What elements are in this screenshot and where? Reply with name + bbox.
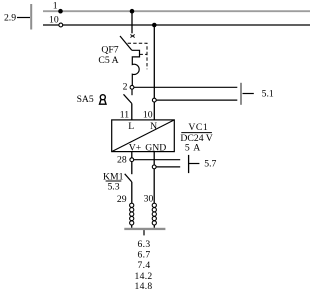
wire N (net 10, black) xyxy=(43,24,310,26)
tap circle on GND drop xyxy=(152,165,156,169)
svg-text:10: 10 xyxy=(49,15,59,26)
svg-text:7.4: 7.4 xyxy=(138,260,151,271)
junction dot on net 1 at x61 xyxy=(58,9,63,14)
wire 28 to sheet 5.7 xyxy=(134,159,181,161)
tag underline xyxy=(181,132,212,134)
switch SA5 xyxy=(131,89,133,95)
svg-text:1: 1 xyxy=(53,0,58,11)
svg-text:VC1: VC1 xyxy=(188,122,208,133)
breaker QF7 switch arm xyxy=(120,36,132,50)
tick below bar xyxy=(143,230,145,235)
svg-text:C5 A: C5 A xyxy=(98,55,118,66)
terminal chain 29 xyxy=(130,203,134,225)
wire stub from 2.9 label xyxy=(17,17,30,19)
stub to 5.1 label xyxy=(243,93,254,95)
contact KM1 arm xyxy=(125,174,132,182)
power supply U1 box xyxy=(112,120,175,152)
svg-text:5.1: 5.1 xyxy=(262,88,274,99)
svg-text:14.2: 14.2 xyxy=(135,271,153,282)
svg-text:30: 30 xyxy=(144,194,154,205)
wire net10 down to power supply N pin xyxy=(152,23,157,28)
lead chain30 to bar xyxy=(153,225,155,228)
contact KM1 top lead xyxy=(131,162,133,175)
svg-text:2.9: 2.9 xyxy=(4,12,16,23)
stub to 5.7 label xyxy=(189,163,200,165)
svg-text:V+: V+ xyxy=(129,142,141,153)
wire from N tap to sheet 5.1 xyxy=(156,99,237,101)
svg-text:28: 28 xyxy=(117,154,127,165)
contact KM1 bottom lead xyxy=(131,182,133,203)
svg-text:2: 2 xyxy=(123,82,128,93)
svg-text:QF7: QF7 xyxy=(101,45,118,56)
page-break bar right (5.1) xyxy=(240,83,242,105)
svg-text:5.3: 5.3 xyxy=(107,182,119,193)
wire from terminal 2 to sheet 5.1 xyxy=(134,86,237,88)
power supply diagonal xyxy=(112,120,175,152)
KM1 underline xyxy=(106,180,122,182)
svg-text:L: L xyxy=(128,121,134,132)
svg-text:10: 10 xyxy=(143,110,153,121)
terminal strip bar xyxy=(124,228,165,230)
svg-text:GND: GND xyxy=(145,142,166,153)
page-break bar left xyxy=(30,4,32,30)
QF7 magnetic + thermal release path xyxy=(132,50,140,85)
svg-text:11: 11 xyxy=(120,110,129,121)
V+ pin wire below box xyxy=(131,152,133,158)
off-page bar 5.7 xyxy=(188,155,190,173)
terminal circle on net 10 at x61 xyxy=(59,23,63,27)
terminal chain 30 xyxy=(152,203,156,225)
svg-text:14.8: 14.8 xyxy=(135,281,153,292)
svg-text:6.3: 6.3 xyxy=(138,239,151,250)
junction dot net1 to QF7 xyxy=(130,9,135,14)
SA5 actuator icon xyxy=(100,95,107,105)
svg-text:29: 29 xyxy=(117,194,127,205)
wire from net 1 down to QF7 xyxy=(131,11,133,33)
wire GND tap to sheet 5.7 xyxy=(156,166,180,168)
svg-text:5 A: 5 A xyxy=(185,142,201,153)
tap circle on N drop xyxy=(152,98,156,102)
QF7 trip linkage (dashed) xyxy=(128,43,147,69)
svg-text:6.7: 6.7 xyxy=(138,249,151,260)
GND pin wire below box xyxy=(153,152,155,165)
wire L1 (net 1, gray) xyxy=(43,10,310,12)
lead chain29 to bar xyxy=(131,225,133,228)
svg-text:5.7: 5.7 xyxy=(204,158,216,169)
QF7 fixed contact cross xyxy=(130,35,134,38)
svg-text:SA5: SA5 xyxy=(77,94,94,105)
svg-text:N: N xyxy=(150,121,157,132)
